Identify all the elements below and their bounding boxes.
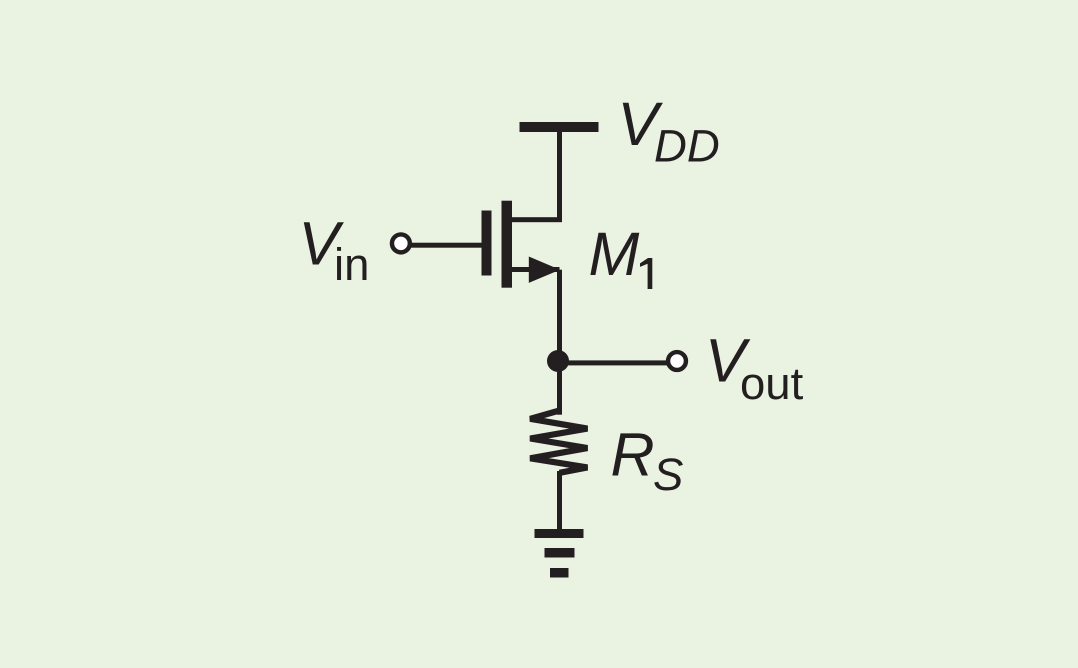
label RS [611,421,684,501]
svg-text:in: in [334,239,369,290]
wire source vertical [557,270,562,415]
label Vin [299,210,370,291]
terminal Vin [392,234,410,252]
label M1 [589,220,653,289]
power symbol VDD [520,122,599,132]
svg-text:M: M [589,220,640,288]
svg-text:R: R [611,421,655,489]
svg-text:S: S [653,449,683,500]
wire drain vertical [557,131,562,220]
wire gate [410,243,482,248]
svg-text:DD: DD [654,121,720,172]
terminal Vout [668,352,686,370]
wire output [558,360,668,365]
wire resistor to ground [557,471,562,530]
ground [535,529,584,578]
label Vout [705,327,804,410]
transistor M1 [482,201,561,288]
label VDD [618,90,720,172]
node source junction [547,350,569,372]
svg-text:out: out [740,358,804,409]
resistor RS [530,411,587,473]
wire drain horizontal [512,217,562,222]
